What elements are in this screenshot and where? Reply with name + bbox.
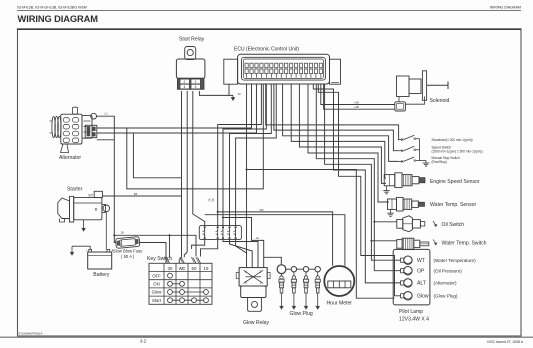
svg-text:(Glow Plug): (Glow Plug) bbox=[434, 294, 458, 299]
svg-text:1B: 1B bbox=[121, 231, 124, 235]
svg-text:W5: W5 bbox=[260, 208, 264, 212]
svg-text:(Run/Stop): (Run/Stop) bbox=[432, 160, 447, 164]
svg-text:Glow Relay: Glow Relay bbox=[243, 320, 269, 326]
svg-text:AC: AC bbox=[179, 266, 186, 271]
svg-text:19: 19 bbox=[204, 266, 209, 271]
svg-text:Starter: Starter bbox=[67, 186, 83, 192]
svg-text:Oil Switch: Oil Switch bbox=[442, 222, 465, 228]
svg-text:WT: WT bbox=[417, 258, 425, 264]
svg-text:ECU (Electronic Control Unit): ECU (Electronic Control Unit) bbox=[234, 46, 299, 52]
svg-text:Pilot Lamp: Pilot Lamp bbox=[399, 309, 423, 315]
svg-text:Start Relay: Start Relay bbox=[179, 37, 205, 43]
svg-text:Hour Meter: Hour Meter bbox=[327, 301, 353, 307]
svg-text:Slowdown(1 200 min-1(rpm)): Slowdown(1 200 min-1(rpm)) bbox=[432, 138, 473, 142]
svg-text:2: 2 bbox=[184, 80, 186, 84]
svg-text:B: B bbox=[95, 206, 98, 211]
svg-text:ST: ST bbox=[88, 193, 94, 198]
svg-text:Glow Plug: Glow Plug bbox=[290, 311, 313, 317]
svg-text:WIRING DIAGRAM: WIRING DIAGRAM bbox=[18, 14, 99, 24]
svg-text:Solenoid: Solenoid bbox=[430, 98, 450, 104]
svg-text:(Water Temperature): (Water Temperature) bbox=[434, 258, 477, 263]
svg-text:1: 1 bbox=[195, 80, 197, 84]
svg-text:+2B: +2B bbox=[354, 100, 359, 104]
svg-text:1: 1 bbox=[260, 281, 262, 285]
svg-text:50: 50 bbox=[192, 266, 197, 271]
svg-text:3: 3 bbox=[245, 281, 247, 285]
svg-text:B6: B6 bbox=[134, 192, 138, 196]
svg-text:Glow: Glow bbox=[417, 294, 429, 300]
svg-text:4: 4 bbox=[245, 270, 247, 274]
svg-text:Battery: Battery bbox=[93, 272, 110, 278]
svg-text:30: 30 bbox=[168, 266, 173, 271]
svg-text:( 50 A ): ( 50 A ) bbox=[121, 254, 135, 259]
svg-text:+2B: +2B bbox=[354, 105, 359, 109]
svg-text:1A: 1A bbox=[238, 92, 241, 96]
svg-text:KiSC issued 07, 2008 A: KiSC issued 07, 2008 A bbox=[487, 340, 523, 344]
svg-text:3-2: 3-2 bbox=[140, 338, 147, 343]
svg-text:Key Switch: Key Switch bbox=[147, 256, 172, 262]
svg-text:Alternator: Alternator bbox=[59, 155, 81, 161]
svg-text:1A: 1A bbox=[256, 236, 259, 240]
svg-text:(Oil Pressure): (Oil Pressure) bbox=[434, 269, 463, 274]
svg-text:(Alternator): (Alternator) bbox=[434, 281, 457, 286]
svg-text:12V3.4W X 4: 12V3.4W X 4 bbox=[399, 316, 429, 322]
svg-text:Water Temp. Switch: Water Temp. Switch bbox=[442, 241, 487, 247]
svg-text:Start: Start bbox=[152, 298, 162, 303]
svg-text:OP: OP bbox=[417, 269, 425, 275]
svg-text:Engine Speed Sensor: Engine Speed Sensor bbox=[430, 179, 480, 185]
svg-text:03-M-E3B, 03-M-DI-E3B, 03-M-E3: 03-M-E3B, 03-M-DI-E3B, 03-M-E3BG WSM bbox=[17, 6, 87, 10]
svg-text:WIRING DIAGRAM: WIRING DIAGRAM bbox=[490, 6, 521, 10]
svg-text:OFF: OFF bbox=[152, 273, 161, 278]
svg-text:Water Temp. Sensor: Water Temp. Sensor bbox=[430, 202, 476, 208]
svg-text:(1500 min-1(rpm) 1 500 min-1(r: (1500 min-1(rpm) 1 500 min-1(rpm)) bbox=[432, 150, 483, 154]
svg-text:9Y0A0AKFP001A: 9Y0A0AKFP001A bbox=[19, 332, 43, 336]
svg-text:2: 2 bbox=[260, 270, 262, 274]
svg-text:Glow: Glow bbox=[152, 290, 163, 295]
svg-text:4: 4 bbox=[184, 85, 186, 89]
svg-text:ALT: ALT bbox=[417, 281, 426, 287]
svg-text:ON: ON bbox=[153, 282, 159, 287]
svg-text:2B: 2B bbox=[212, 198, 215, 201]
svg-text:3: 3 bbox=[195, 85, 197, 89]
